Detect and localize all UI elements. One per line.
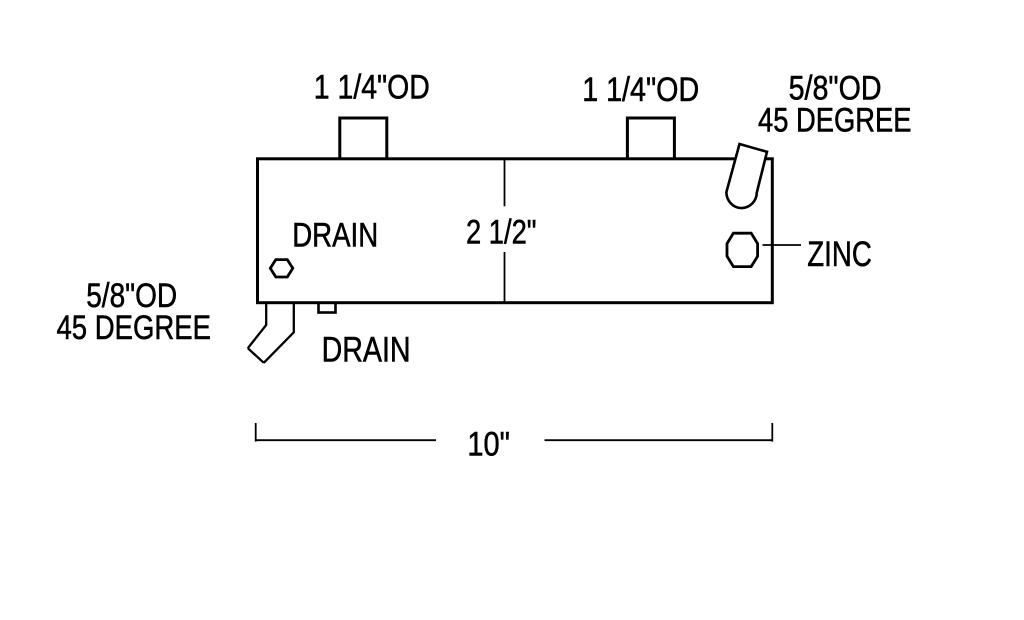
svg-text:DRAIN: DRAIN bbox=[322, 330, 411, 369]
center dimension line (2 1/2") upper segment bbox=[504, 160, 506, 206]
bottom dimension: right line bbox=[545, 439, 773, 441]
drain square stub (bottom) bbox=[319, 301, 336, 313]
hex drain plug bbox=[270, 260, 293, 277]
tank body rectangle bbox=[258, 159, 773, 303]
zinc anode octagon bbox=[727, 233, 758, 266]
svg-text:45 DEGREE: 45 DEGREE bbox=[57, 309, 212, 347]
bottom dimension: left tick bbox=[255, 423, 257, 442]
zinc leader line bbox=[763, 244, 802, 246]
center dimension line (2 1/2") lower segment bbox=[504, 252, 506, 302]
svg-text:10": 10" bbox=[467, 425, 510, 463]
svg-text:2 1/2": 2 1/2" bbox=[466, 214, 537, 252]
svg-text:45 DEGREE: 45 DEGREE bbox=[758, 101, 912, 139]
svg-text:1 1/4"OD: 1 1/4"OD bbox=[582, 71, 699, 109]
45 degree elbow (bottom left, 5/8"OD) bbox=[248, 304, 294, 363]
svg-text:DRAIN: DRAIN bbox=[292, 217, 378, 255]
45 degree fitting (top right, 5/8"OD) bbox=[726, 144, 767, 208]
port stub 2 (1 1/4"OD) bbox=[627, 118, 674, 159]
svg-text:1 1/4"OD: 1 1/4"OD bbox=[314, 68, 430, 106]
bottom dimension: right tick bbox=[771, 423, 773, 442]
bottom dimension: left line bbox=[256, 439, 436, 441]
port stub 1 (1 1/4"OD) bbox=[340, 118, 387, 159]
svg-text:ZINC: ZINC bbox=[807, 235, 872, 274]
